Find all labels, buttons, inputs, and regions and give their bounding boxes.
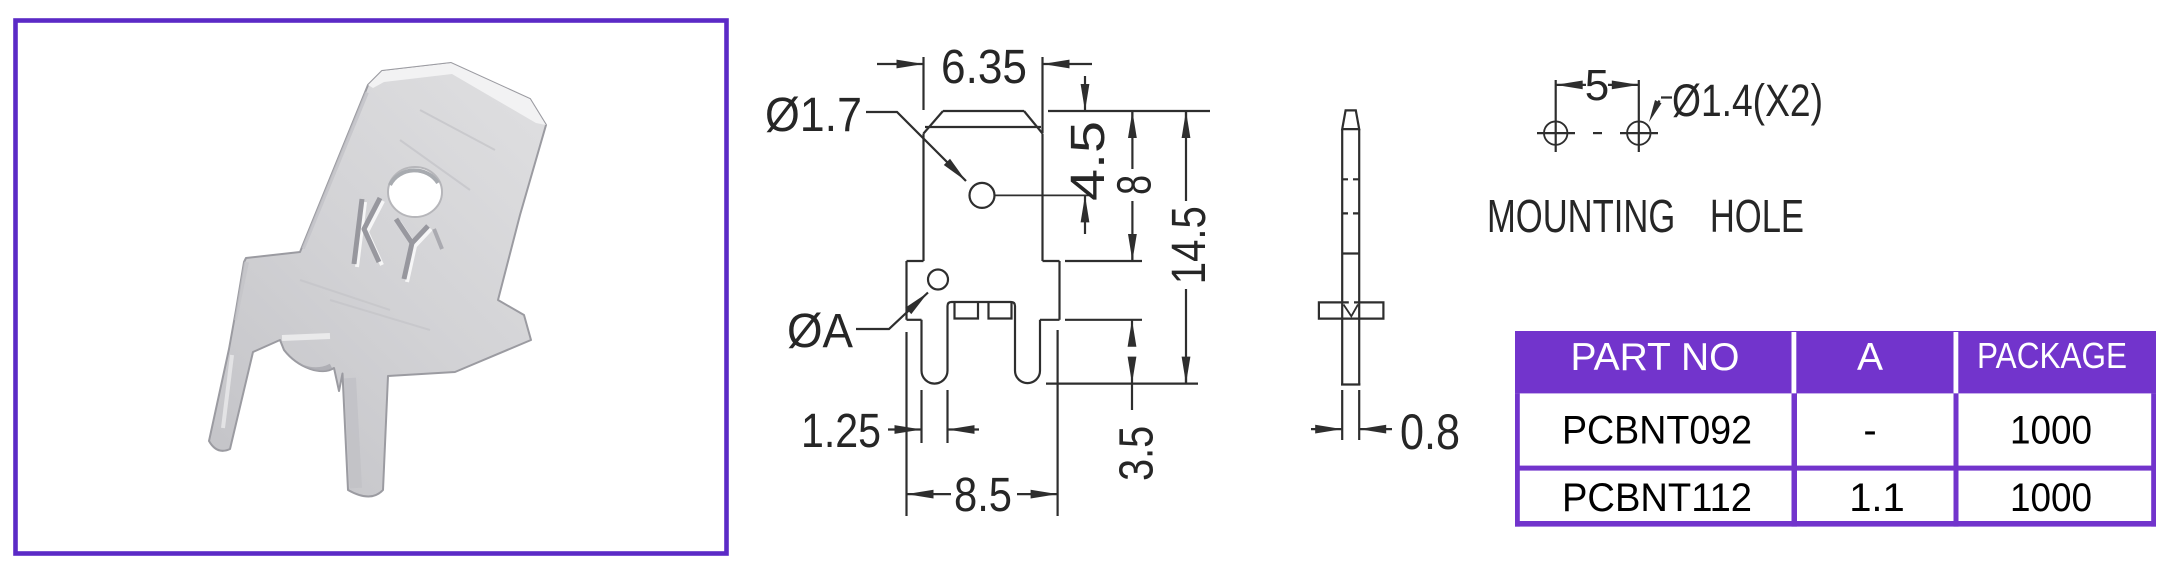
tab bevel line: [925, 126, 1041, 128]
extension of top edge to the right: [1048, 110, 1210, 112]
extension of body bottom to the right: [1065, 319, 1142, 321]
svg-text:8: 8: [1108, 175, 1161, 195]
header divider white 2: [1954, 332, 1959, 393]
left edge shading: [302, 92, 366, 248]
table header band: [1515, 331, 2156, 393]
hole in tab: [388, 167, 442, 217]
photo frame (purple bordered box): [16, 21, 727, 554]
tab top edge: [943, 110, 1024, 112]
svg-text:6.35: 6.35: [941, 41, 1027, 94]
side flange rectangle: [1319, 302, 1384, 318]
KY stamp marks: [357, 201, 431, 282]
centerline vertical right: [1638, 80, 1640, 152]
bend line solid: [1342, 252, 1359, 254]
svg-text:1.1: 1.1: [1849, 476, 1905, 520]
scratches: [300, 110, 495, 330]
mounting hole right circle: [1627, 121, 1650, 144]
body column divider 1: [1792, 393, 1798, 526]
svg-text:PCBNT092: PCBNT092: [1562, 409, 1752, 453]
table right border: [2151, 393, 2156, 526]
right leg: [1011, 302, 1040, 383]
svg-text:MOUNTING HOLE: MOUNTING HOLE: [1487, 190, 1804, 242]
side bar bottom: [1341, 383, 1360, 385]
svg-text:PART NO: PART NO: [1570, 336, 1739, 379]
body column divider 2: [1954, 393, 1959, 526]
svg-text:4.5: 4.5: [1062, 121, 1115, 201]
tab top-right chamfer: [1024, 111, 1043, 134]
svg-text:3.5: 3.5: [1111, 426, 1164, 481]
dimension 14.5 (top edge to leg tips): [1185, 111, 1187, 201]
table left border: [1515, 393, 1520, 526]
dimension 8 (top edge to shoulder): [1131, 111, 1133, 169]
svg-text:ØA: ØA: [787, 305, 853, 358]
extension of leg tips to the right: [1046, 383, 1198, 385]
svg-text:1000: 1000: [2010, 409, 2092, 453]
leader for hole size: [1652, 98, 1672, 116]
side bar right edge: [1358, 129, 1360, 384]
mid notch rectangle left: [955, 303, 979, 319]
bright top face: [368, 63, 546, 125]
tab left edge: [922, 134, 924, 262]
dimension 6.35: [877, 57, 1092, 133]
svg-text:14.5: 14.5: [1163, 206, 1216, 284]
svg-text:1.25: 1.25: [801, 405, 881, 458]
bend line dashed 2: [1342, 212, 1359, 214]
table bottom border: [1515, 521, 2156, 527]
bend line dashed 1: [1342, 178, 1359, 180]
header divider white 1: [1792, 332, 1797, 393]
svg-text:-: -: [1863, 409, 1876, 453]
body left edge: [905, 261, 907, 320]
tab top-left chamfer: [924, 111, 944, 134]
svg-text:5: 5: [1585, 61, 1609, 110]
bottom edge right of right leg: [1040, 319, 1060, 321]
photo: metal PCB terminal part: [204, 63, 546, 497]
body right edge: [1058, 261, 1060, 320]
mid bottom line between legs: [952, 301, 1012, 303]
svg-text:Ø1.4(X2): Ø1.4(X2): [1672, 75, 1823, 126]
centerline middle dash: [1593, 132, 1602, 134]
dimension 0.8 (thickness): [1311, 390, 1392, 440]
fold V mark: [1344, 305, 1359, 317]
left shoulder: [907, 260, 924, 262]
side bar tip: [1342, 110, 1359, 129]
shadow under stop tab: [287, 358, 331, 370]
svg-text:1000: 1000: [2010, 476, 2092, 520]
svg-text:PCBNT112: PCBNT112: [1562, 476, 1752, 520]
svg-text:PACKAGE: PACKAGE: [1977, 335, 2127, 376]
centerline horizontal left: [1537, 132, 1575, 134]
mid notch rectangle right: [989, 303, 1012, 319]
part silhouette: [209, 63, 546, 497]
leg shading: [204, 352, 215, 438]
svg-text:A: A: [1857, 336, 1883, 379]
dimension 1.25 (left leg width): [888, 390, 979, 443]
dimension 8.5 (body width): [907, 330, 1058, 516]
tab hole: [970, 183, 995, 208]
mounting hole left circle: [1544, 121, 1567, 144]
row divider: [1515, 466, 2156, 471]
bottom edge left of left leg: [907, 319, 922, 321]
dimension 4.5 (top edge to hole center): [1084, 76, 1086, 234]
svg-text:0.8: 0.8: [1400, 404, 1460, 460]
tab right edge: [1041, 134, 1043, 262]
dim 5 arrows: [1556, 84, 1586, 86]
centerline vertical left: [1555, 80, 1557, 152]
right shoulder: [1043, 260, 1060, 262]
svg-text:8.5: 8.5: [954, 469, 1012, 522]
hole centerline to dimension: [995, 194, 1092, 196]
side bar left edge: [1341, 129, 1343, 384]
centerline horizontal right: [1620, 132, 1658, 134]
extension of shoulder line to the right: [1065, 260, 1142, 262]
left leg: [922, 302, 952, 384]
dimension 3.5 (body bottom to leg tips): [1131, 320, 1133, 344]
hole A circle: [928, 270, 948, 290]
svg-text:Ø1.7: Ø1.7: [765, 89, 862, 142]
